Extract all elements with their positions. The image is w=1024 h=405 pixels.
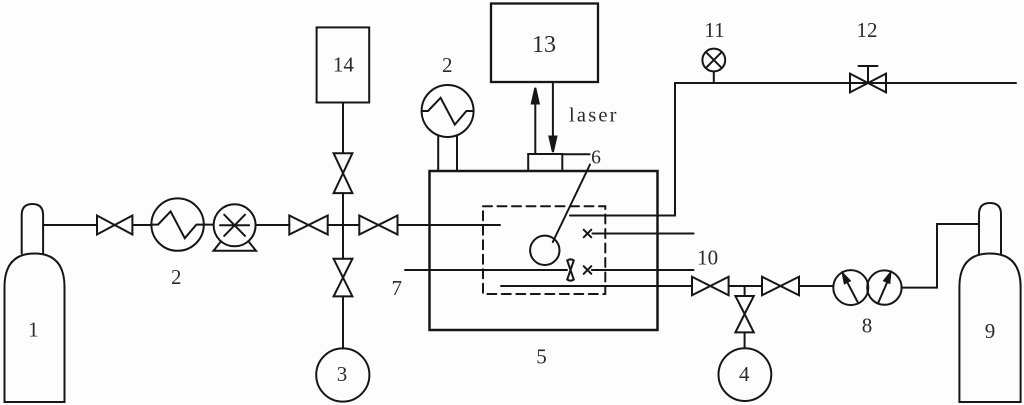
svg-text:laser: laser: [569, 105, 619, 127]
svg-text:10: 10: [697, 245, 718, 269]
svg-text:6: 6: [591, 148, 601, 169]
svg-text:2: 2: [442, 53, 453, 77]
svg-text:12: 12: [857, 18, 878, 42]
svg-text:3: 3: [337, 362, 348, 386]
svg-text:4: 4: [739, 362, 750, 386]
svg-text:7: 7: [392, 276, 403, 300]
svg-text:9: 9: [985, 319, 996, 343]
svg-text:13: 13: [532, 32, 556, 58]
svg-text:2: 2: [171, 265, 182, 289]
svg-text:5: 5: [536, 344, 547, 368]
svg-text:1: 1: [28, 318, 39, 342]
svg-text:8: 8: [862, 313, 873, 337]
svg-text:14: 14: [333, 53, 355, 77]
svg-text:11: 11: [704, 18, 724, 42]
